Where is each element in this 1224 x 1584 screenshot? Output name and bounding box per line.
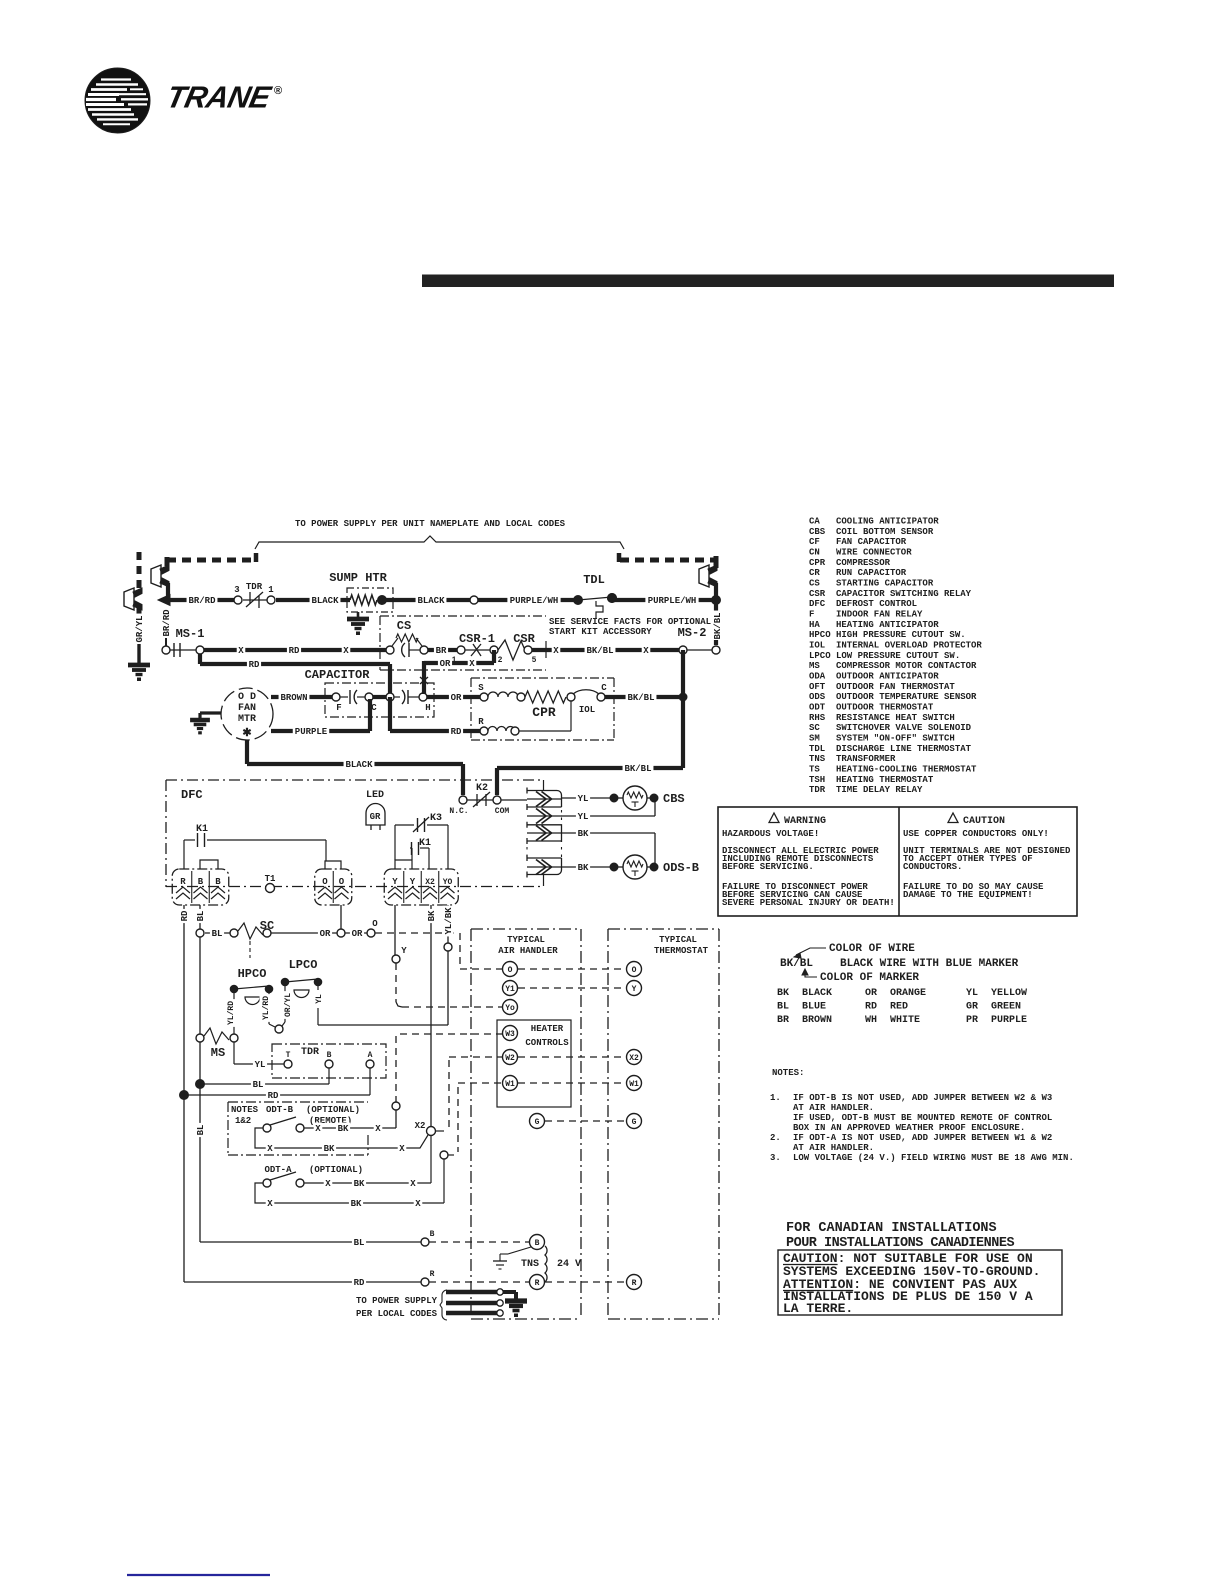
plug connector P2 <box>699 565 717 587</box>
svg-text:BLACK: BLACK <box>417 596 445 606</box>
svg-text:TDR: TDR <box>246 582 263 592</box>
sensor CBS <box>610 786 658 810</box>
svg-text:COIL BOTTOM SENSOR: COIL BOTTOM SENSOR <box>836 527 934 537</box>
ground G1 <box>128 665 150 681</box>
svg-text:TIME DELAY RELAY: TIME DELAY RELAY <box>836 785 923 795</box>
svg-text:TRANE: TRANE <box>164 80 276 115</box>
svg-text:SM: SM <box>809 733 820 743</box>
svg-text:AT AIR HANDLER.: AT AIR HANDLER. <box>793 1103 874 1113</box>
svg-text:INTERNAL OVERLOAD PROTECTOR: INTERNAL OVERLOAD PROTECTOR <box>836 640 982 650</box>
svg-text:SEVERE PERSONAL INJURY OR DEAT: SEVERE PERSONAL INJURY OR DEATH! <box>722 898 895 908</box>
svg-text:RD: RD <box>354 1278 365 1288</box>
motor: O D FAN MTR <box>221 688 273 740</box>
svg-text:START KIT ACCESSORY: START KIT ACCESSORY <box>549 627 652 637</box>
svg-text:3.: 3. <box>770 1153 781 1163</box>
svg-text:K2: K2 <box>476 783 488 794</box>
svg-text:CAPACITOR SWITCHING RELAY: CAPACITOR SWITCHING RELAY <box>836 589 972 599</box>
wire: O2 vertical <box>340 905 342 929</box>
svg-text:GR: GR <box>370 812 381 822</box>
svg-text:B: B <box>215 877 221 887</box>
svg-text:PURPLE/WH: PURPLE/WH <box>648 596 697 606</box>
wire: HPCO left leg YL/RD <box>225 993 237 1034</box>
svg-text:CONTROLS: CONTROLS <box>525 1038 569 1048</box>
svg-text:Y: Y <box>392 877 398 887</box>
box: optional start kit <box>380 616 546 670</box>
svg-text:CBS: CBS <box>663 792 685 806</box>
svg-text:TYPICAL: TYPICAL <box>507 935 545 945</box>
svg-text:TSH: TSH <box>809 775 825 785</box>
wire: BR/RD drop to junction <box>158 583 170 606</box>
box: ODT-B optional <box>228 1102 368 1155</box>
terminal air-handler O <box>503 962 518 977</box>
svg-text:HEATING-COOLING THERMOSTAT: HEATING-COOLING THERMOSTAT <box>836 764 977 774</box>
svg-text:IOL: IOL <box>809 640 825 650</box>
svg-text:PER LOCAL CODES: PER LOCAL CODES <box>356 1309 438 1319</box>
svg-text:DEFROST CONTROL: DEFROST CONTROL <box>836 599 917 609</box>
svg-text:Y1: Y1 <box>505 985 515 994</box>
wire: line 1 black/purple run <box>168 598 578 602</box>
svg-text:TDR: TDR <box>301 1047 319 1058</box>
svg-text:LOW PRESSURE CUTOUT SW.: LOW PRESSURE CUTOUT SW. <box>836 651 960 661</box>
svg-text:BK: BK <box>351 1199 362 1209</box>
svg-text:MTR: MTR <box>238 714 256 725</box>
caution text <box>903 813 1071 900</box>
Trane logo circle <box>85 68 150 133</box>
svg-text:BK: BK <box>578 863 589 873</box>
contactor coil MS <box>196 1028 238 1060</box>
svg-text:NOTES:: NOTES: <box>772 1068 804 1078</box>
svg-text:W1: W1 <box>629 1080 639 1089</box>
wire: H to S (OR) <box>427 692 480 704</box>
svg-text:S: S <box>478 683 484 693</box>
wire: RD branch below MS-1 <box>200 654 390 697</box>
wire: Y drop <box>392 905 502 1007</box>
svg-text:ODS-B: ODS-B <box>663 861 699 875</box>
wire: W1-W1 dashed row <box>518 1082 626 1084</box>
svg-text:OUTDOOR ANTICIPATOR: OUTDOOR ANTICIPATOR <box>836 671 939 681</box>
svg-text:O: O <box>372 919 378 929</box>
terminal air-handler Yo <box>503 1000 518 1015</box>
svg-text:G: G <box>632 1118 637 1127</box>
heater SUMP HTR <box>329 571 393 612</box>
wire: BK/BL vertical to MS-2 <box>712 600 724 645</box>
svg-text:O: O <box>339 877 345 887</box>
terminal thermostat W1 <box>627 1076 642 1091</box>
svg-text:USE COPPER CONDUCTORS ONLY!: USE COPPER CONDUCTORS ONLY! <box>903 829 1049 839</box>
svg-text:O D: O D <box>238 692 256 703</box>
svg-text:COLOR OF MARKER: COLOR OF MARKER <box>820 972 919 984</box>
svg-text:TYPICAL: TYPICAL <box>659 935 697 945</box>
note: canadian installations <box>786 1221 1014 1251</box>
wire: ODT-A upper X BK X <box>304 1136 431 1189</box>
svg-text:ODS: ODS <box>809 692 826 702</box>
Trane logo wordmark <box>164 80 276 115</box>
svg-text:BR/RD: BR/RD <box>162 609 172 637</box>
box: CPR dash-dot <box>471 678 614 740</box>
wire: C to junction <box>373 695 386 699</box>
svg-text:O: O <box>322 877 328 887</box>
contactor MS-2 <box>678 626 720 654</box>
relay contact K2 <box>449 783 509 816</box>
svg-text:BR: BR <box>436 646 447 656</box>
svg-text:BLACK WIRE WITH BLUE MARKER: BLACK WIRE WITH BLUE MARKER <box>840 958 1019 970</box>
svg-text:YL: YL <box>315 994 324 1004</box>
wire: X2 dashed from W2 <box>449 1057 502 1128</box>
svg-text:LPCO: LPCO <box>289 958 318 972</box>
svg-text:G: G <box>535 1118 540 1127</box>
svg-text:RESISTANCE HEAT SWITCH: RESISTANCE HEAT SWITCH <box>836 713 955 723</box>
svg-text:OR: OR <box>440 659 451 669</box>
wire: TDR A to RD <box>184 1068 370 1101</box>
header rule bar <box>422 275 1114 288</box>
svg-text:NOTES: NOTES <box>231 1105 259 1115</box>
svg-text:C: C <box>601 683 607 693</box>
wire: ODT-B lower X BK X <box>266 1135 428 1154</box>
wire: K1 to terminal R <box>183 840 185 869</box>
svg-text:BK: BK <box>324 1144 335 1154</box>
svg-text:DFC: DFC <box>181 788 203 802</box>
svg-text:YL: YL <box>255 1060 266 1070</box>
svg-text:INDOOR FAN RELAY: INDOOR FAN RELAY <box>836 609 923 619</box>
svg-text:HPCO: HPCO <box>809 630 831 640</box>
svg-text:RD: RD <box>451 727 462 737</box>
svg-text:PURPLE: PURPLE <box>295 727 328 737</box>
terminal thermostat X2 <box>627 1050 642 1065</box>
svg-text:1&2: 1&2 <box>235 1116 251 1126</box>
svg-text:LED: LED <box>366 790 384 801</box>
svg-text:OUTDOOR TEMPERATURE SENSOR: OUTDOOR TEMPERATURE SENSOR <box>836 692 977 702</box>
svg-text:SYSTEM "ON-OFF" SWITCH: SYSTEM "ON-OFF" SWITCH <box>836 733 955 743</box>
svg-text:RD: RD <box>180 910 190 921</box>
svg-text:W2: W2 <box>505 1054 515 1063</box>
svg-text:ODT-A: ODT-A <box>264 1165 292 1175</box>
svg-text:YELLOW: YELLOW <box>991 988 1027 999</box>
svg-text:DISCHARGE LINE THERMOSTAT: DISCHARGE LINE THERMOSTAT <box>836 744 972 754</box>
svg-text:FAN: FAN <box>238 703 256 714</box>
svg-text:BR/RD: BR/RD <box>188 596 216 606</box>
svg-text:TDR: TDR <box>809 785 826 795</box>
svg-text:BLACK: BLACK <box>311 596 339 606</box>
terminal thermostat Y <box>627 981 642 996</box>
svg-text:X: X <box>643 646 649 656</box>
svg-text:CONDUCTORS.: CONDUCTORS. <box>903 862 962 872</box>
wire: W2-X2 dashed row <box>518 1056 626 1058</box>
wire: BK row4 <box>561 862 610 874</box>
box: heater controls <box>497 1020 571 1107</box>
notes <box>770 1068 1074 1163</box>
svg-text:MS: MS <box>809 661 820 671</box>
svg-text:COM: COM <box>495 807 510 816</box>
svg-text:YO: YO <box>443 878 453 887</box>
svg-text:GR/YL: GR/YL <box>135 615 145 642</box>
svg-text:HIGH PRESSURE CUTOUT SW.: HIGH PRESSURE CUTOUT SW. <box>836 630 966 640</box>
svg-text:BK: BK <box>777 988 789 999</box>
svg-text:IF ODT-A IS NOT USED, ADD JUMP: IF ODT-A IS NOT USED, ADD JUMPER BETWEEN… <box>793 1133 1052 1143</box>
connector CN rows 1-3 <box>527 788 562 845</box>
svg-text:X: X <box>553 646 559 656</box>
wire: MS to TDR T (YL) <box>234 1042 284 1070</box>
svg-text:C: C <box>371 703 377 713</box>
svg-text:B: B <box>535 1239 540 1248</box>
svg-text:HEATING THERMOSTAT: HEATING THERMOSTAT <box>836 775 934 785</box>
relay contact CSR-1 <box>452 632 503 665</box>
svg-text:FOR CANADIAN INSTALLATIONS: FOR CANADIAN INSTALLATIONS <box>786 1221 997 1236</box>
svg-text:WIRE CONNECTOR: WIRE CONNECTOR <box>836 547 912 557</box>
svg-text:O: O <box>508 966 513 975</box>
wire: field power lines <box>446 1289 516 1316</box>
svg-text:RED: RED <box>890 1002 908 1013</box>
wire: Y-Y jumper <box>395 860 412 869</box>
svg-text:T: T <box>286 1051 291 1060</box>
box: canadian caution <box>778 1250 1062 1316</box>
svg-text:LOW VOLTAGE (24 V.) FIELD WIRI: LOW VOLTAGE (24 V.) FIELD WIRING MUST BE… <box>793 1153 1074 1163</box>
svg-text:F: F <box>336 703 341 713</box>
svg-text:BL: BL <box>196 911 206 922</box>
wire: ODT-B upper X BK X <box>304 1123 396 1135</box>
svg-text:X: X <box>238 646 244 656</box>
wire: MS-1 to CS (X RD X) <box>204 645 386 657</box>
footer link line <box>127 1574 270 1576</box>
terminal thermostat R <box>627 1275 642 1290</box>
svg-text:X: X <box>415 1199 421 1209</box>
pressure switch HPCO <box>230 967 273 1005</box>
svg-text:RD: RD <box>268 1091 279 1101</box>
svg-text:SC: SC <box>809 723 820 733</box>
svg-text:H: H <box>425 703 430 713</box>
wire: B-B jumper <box>200 860 218 869</box>
relay contact K3 <box>395 813 448 869</box>
terminal air-handler G <box>530 1114 545 1129</box>
svg-text:PURPLE/WH: PURPLE/WH <box>510 596 559 606</box>
svg-text:24 V: 24 V <box>557 1259 581 1270</box>
svg-text:DFC: DFC <box>809 599 826 609</box>
wire: O dashed row <box>518 968 626 970</box>
plug connector P1 <box>151 565 169 587</box>
svg-text:X2: X2 <box>629 1054 639 1063</box>
contactor MS-1 <box>161 608 205 657</box>
wire: R-R dashed row <box>545 1281 626 1283</box>
svg-text:BK/BL: BK/BL <box>586 646 613 656</box>
svg-text:ORANGE: ORANGE <box>890 988 926 999</box>
svg-text:OR: OR <box>865 988 877 999</box>
wire: dashed power feed right <box>619 553 716 568</box>
svg-text:OR: OR <box>352 929 363 939</box>
svg-text:R: R <box>180 877 186 887</box>
svg-text:1.: 1. <box>770 1093 781 1103</box>
svg-text:OFT: OFT <box>809 682 826 692</box>
svg-text:Y: Y <box>632 985 637 994</box>
svg-text:B: B <box>430 1230 435 1239</box>
brace <box>255 536 624 549</box>
terminal strip O O <box>315 869 352 905</box>
svg-text:YL: YL <box>966 988 978 999</box>
svg-text:TDL: TDL <box>809 744 825 754</box>
ground G4 <box>505 1301 527 1317</box>
solenoid switch SC row <box>196 919 378 958</box>
wire: Y1-Y dashed row <box>518 987 626 989</box>
wire: RD to R <box>390 697 480 737</box>
svg-text:TRANSFORMER: TRANSFORMER <box>836 754 896 764</box>
svg-text:ODT-B: ODT-B <box>266 1105 294 1115</box>
svg-text:1: 1 <box>268 585 274 595</box>
connector CN row4 <box>527 855 562 878</box>
svg-text:Y: Y <box>401 946 407 956</box>
svg-text:BROWN: BROWN <box>280 693 307 703</box>
svg-text:X: X <box>375 1124 381 1134</box>
svg-text:T1: T1 <box>265 874 276 884</box>
svg-text:R: R <box>478 717 484 727</box>
svg-text:3: 3 <box>234 585 239 595</box>
svg-text:CN: CN <box>809 547 820 557</box>
svg-text:WHITE: WHITE <box>890 1015 920 1026</box>
svg-text:WARNING: WARNING <box>784 816 826 827</box>
box: TDR time delay relay <box>272 1044 386 1078</box>
svg-text:BK: BK <box>578 829 589 839</box>
svg-text:X2: X2 <box>415 1121 426 1131</box>
svg-text:B: B <box>198 877 204 887</box>
svg-text:SUMP HTR: SUMP HTR <box>329 571 387 585</box>
wire: YL row1 <box>561 793 610 805</box>
svg-text:GR: GR <box>966 1002 978 1013</box>
wire: main BK/BL bus vertical <box>679 650 687 768</box>
contact TDR 3-1 <box>234 582 276 608</box>
terminal air-handler Y1 <box>503 981 518 996</box>
svg-text:X: X <box>469 659 475 669</box>
capacitor CS with bypass <box>386 619 428 657</box>
svg-text:W3: W3 <box>505 1030 515 1039</box>
connector node W1 path <box>440 1083 502 1159</box>
svg-text:BL: BL <box>777 1002 789 1013</box>
wire: PURPLE to C <box>271 699 370 737</box>
svg-text:SEE SERVICE FACTS FOR OPTIONAL: SEE SERVICE FACTS FOR OPTIONAL <box>549 617 711 627</box>
svg-text:TDL: TDL <box>583 573 605 587</box>
svg-text:SWITCHOVER VALVE SOLENOID: SWITCHOVER VALVE SOLENOID <box>836 723 972 733</box>
connector X2 node <box>415 1121 444 1136</box>
svg-text:✱: ✱ <box>242 727 251 740</box>
svg-text:X: X <box>267 1199 273 1209</box>
wire: BK/BL to K2 COM <box>497 763 683 796</box>
wire: BROWN to F <box>271 692 332 704</box>
box: DFC right edge bits <box>527 780 562 886</box>
svg-text:Y: Y <box>410 877 416 887</box>
svg-text:TNS: TNS <box>809 754 826 764</box>
svg-text:FAN CAPACITOR: FAN CAPACITOR <box>836 537 907 547</box>
svg-text:X: X <box>343 646 349 656</box>
svg-text:THERMOSTAT: THERMOSTAT <box>654 946 709 956</box>
svg-text:Yo: Yo <box>505 1004 515 1013</box>
LED GR indicator <box>366 790 385 830</box>
svg-text:OR: OR <box>320 929 331 939</box>
svg-text:CR: CR <box>809 568 820 578</box>
svg-text:2.: 2. <box>770 1133 781 1143</box>
svg-text:RD: RD <box>249 660 260 670</box>
svg-text:BL: BL <box>253 1080 264 1090</box>
wire: OR drop from CSR-1 pin2 <box>420 650 494 694</box>
ground G2 <box>347 612 369 635</box>
svg-text:X: X <box>315 1124 321 1134</box>
wire: G-G dashed row <box>545 1120 626 1122</box>
svg-text:LPCO: LPCO <box>809 651 831 661</box>
svg-text:YL/BK: YL/BK <box>444 907 454 935</box>
svg-text:BLUE: BLUE <box>802 1002 826 1013</box>
svg-text:R: R <box>430 1270 435 1279</box>
connector CN splice <box>275 1025 283 1033</box>
sensor ODS-B <box>610 855 658 879</box>
svg-text:COMPRESSOR: COMPRESSOR <box>836 558 891 568</box>
box: DFC defrost control <box>166 780 544 887</box>
svg-text:CPR: CPR <box>809 558 826 568</box>
wire: X2 BK drop <box>426 905 438 1127</box>
svg-text:N.C.: N.C. <box>449 807 468 816</box>
svg-text:BL: BL <box>354 1238 365 1248</box>
wire: BLACK from fan motor <box>247 740 463 795</box>
compressor CPR <box>478 683 607 735</box>
svg-text:2: 2 <box>498 656 503 665</box>
pressure switch LPCO <box>281 958 322 998</box>
svg-text:BLACK: BLACK <box>345 760 373 770</box>
svg-text:BK/BL: BK/BL <box>624 764 651 774</box>
svg-text:BL: BL <box>212 929 223 939</box>
svg-text:STARTING CAPACITOR: STARTING CAPACITOR <box>836 578 934 588</box>
svg-text:YL: YL <box>578 794 589 804</box>
svg-text:A: A <box>368 1051 373 1060</box>
svg-text:BK/BL: BK/BL <box>627 693 654 703</box>
svg-text:F: F <box>809 609 814 619</box>
wire: TDR B to BL <box>200 1068 329 1090</box>
wire: BK/BL drop right <box>714 583 718 602</box>
terminal strip R B B <box>172 869 229 905</box>
svg-text:ODT: ODT <box>809 702 826 712</box>
svg-text:TS: TS <box>809 764 820 774</box>
svg-text:OR: OR <box>451 693 462 703</box>
svg-text:X2: X2 <box>425 878 435 887</box>
svg-text:X: X <box>325 1179 331 1189</box>
svg-text:CS: CS <box>397 619 411 633</box>
svg-text:®: ® <box>274 85 282 97</box>
box: warning caution <box>718 807 1077 916</box>
wire: YL row2 <box>561 798 655 822</box>
relay TDR terminals T B A <box>284 1051 374 1068</box>
wire: W3 dashed via ODT-B <box>392 1034 502 1128</box>
capacitor CF terminals F C <box>332 690 377 713</box>
svg-text:LA TERRE.: LA TERRE. <box>783 1301 853 1316</box>
ground G3 <box>190 713 221 734</box>
wire: HPCO right leg YL/RD <box>260 993 276 1027</box>
terminal thermostat O <box>627 962 642 977</box>
svg-text:PURPLE: PURPLE <box>991 1015 1027 1026</box>
wire: LPCO left leg OR/YL <box>282 986 294 1026</box>
svg-text:5: 5 <box>532 656 537 665</box>
wire: LPCO right leg YL <box>313 986 325 1025</box>
svg-text:HAZARDOUS VOLTAGE!: HAZARDOUS VOLTAGE! <box>722 829 819 839</box>
svg-text:BOX IN AN APPROVED WEATHER PRO: BOX IN AN APPROVED WEATHER PROOF ENCLOSU… <box>793 1123 1025 1133</box>
wire: RD vertical from terminal R <box>179 905 191 1282</box>
wire: O dashed to air handler <box>375 933 502 969</box>
svg-text:WH: WH <box>865 1015 877 1026</box>
svg-text:TNS: TNS <box>521 1259 539 1270</box>
svg-text:IF ODT-B IS NOT USED, ADD JUMP: IF ODT-B IS NOT USED, ADD JUMPER BETWEEN… <box>793 1093 1052 1103</box>
svg-text:OUTDOOR THERMOSTAT: OUTDOOR THERMOSTAT <box>836 702 934 712</box>
svg-text:OR/YL: OR/YL <box>284 993 293 1017</box>
svg-text:ODA: ODA <box>809 671 826 681</box>
svg-text:IF USED, ODT-B MUST BE MOUNTED: IF USED, ODT-B MUST BE MOUNTED REMOTE OF… <box>793 1113 1052 1123</box>
svg-text:TO POWER SUPPLY PER UNIT NAMEP: TO POWER SUPPLY PER UNIT NAMEPLATE AND L… <box>295 519 566 529</box>
svg-text:RD: RD <box>865 1002 877 1013</box>
svg-text:AIR HANDLER: AIR HANDLER <box>498 946 558 956</box>
warning text <box>722 813 895 908</box>
svg-text:BLACK: BLACK <box>802 988 832 999</box>
svg-text:COLOR OF WIRE: COLOR OF WIRE <box>829 943 915 955</box>
